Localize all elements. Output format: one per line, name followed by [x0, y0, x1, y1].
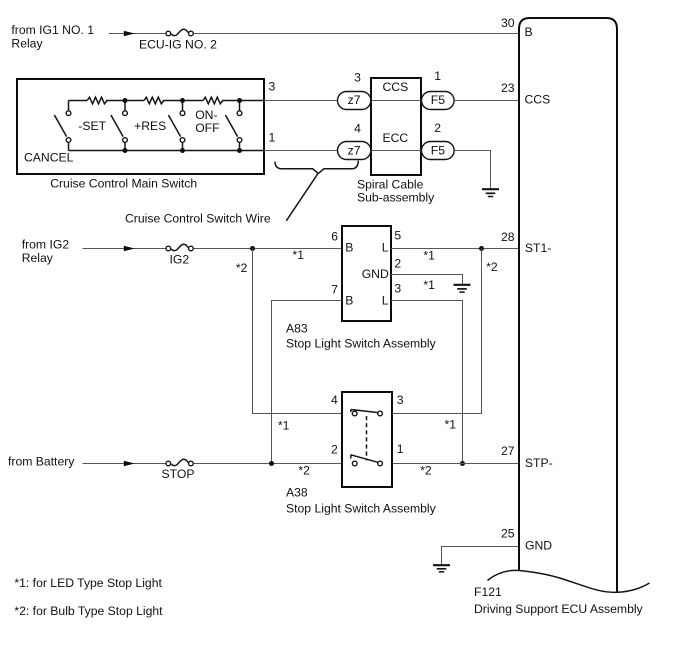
- svg-text:Driving Support ECU Assembly: Driving Support ECU Assembly: [474, 602, 644, 616]
- svg-text:Cruise Control Main Switch: Cruise Control Main Switch: [50, 177, 197, 191]
- svg-text:*2: *2: [486, 260, 498, 274]
- svg-text:F5: F5: [431, 143, 445, 157]
- wire ECU pin 25 to ground: [442, 547, 519, 565]
- wire A83 pin3 down to STP wire: [391, 301, 463, 464]
- ground (ECU GND): [433, 565, 450, 572]
- wire top rail (pin 3 rail): [69, 100, 265, 102]
- fuse ECU-IG NO. 2: [139, 29, 217, 51]
- svg-text:from Battery: from Battery: [8, 455, 75, 469]
- wire A83 pin5 to ECU pin 28: [391, 248, 518, 250]
- svg-text:OFF: OFF: [195, 121, 219, 135]
- switch -SET: [78, 102, 127, 151]
- svg-text:27: 27: [501, 444, 515, 458]
- resistor R3: [203, 97, 223, 104]
- svg-text:1: 1: [397, 442, 404, 456]
- svg-text:A83: A83: [286, 321, 308, 335]
- switch A38 lower (Bulb): [351, 455, 383, 466]
- wire A83 pin2 to ground: [391, 275, 463, 285]
- leader line to label: [286, 173, 318, 221]
- svg-text:Relay: Relay: [22, 251, 54, 265]
- svg-text:28: 28: [501, 230, 515, 244]
- svg-text:ECC: ECC: [383, 131, 409, 145]
- fuse IG2: [166, 244, 193, 266]
- svg-text:2: 2: [394, 257, 401, 271]
- connector F5 pin 1: [422, 69, 455, 110]
- switch ON-OFF: [195, 102, 242, 151]
- wire A38 pin1 to ECU pin 27: [392, 463, 518, 465]
- cruise control main switch box: [17, 79, 264, 174]
- wire A83 pin7 down to STOP wire: [272, 301, 343, 464]
- svg-text:A38: A38: [286, 486, 308, 500]
- arrow IG2 flow: [124, 246, 135, 251]
- node dots on bottom rail: [123, 148, 128, 153]
- wire vertical ST1 junction to A38 pin 3: [392, 249, 482, 414]
- brace cruise control switch wire: [275, 161, 358, 174]
- arrow IG1 flow: [124, 31, 135, 36]
- svg-text:Stop Light Switch Assembly: Stop Light Switch Assembly: [286, 502, 437, 516]
- svg-text:*1: *1: [423, 278, 435, 292]
- svg-text:B: B: [345, 240, 353, 254]
- svg-text:B: B: [345, 294, 353, 308]
- wire F5 pin2 to ground: [454, 151, 490, 189]
- switch CANCEL: [24, 101, 74, 165]
- connector F5 pin 2: [422, 121, 455, 160]
- svg-text:CCS: CCS: [383, 80, 409, 94]
- svg-text:L: L: [382, 240, 389, 254]
- wire through spiral box row ECC: [371, 150, 421, 152]
- svg-text:*1: *1: [423, 249, 435, 263]
- wire through spiral box row CCS: [371, 100, 421, 102]
- wire F5 pin1 to ECU pin 23: [454, 100, 518, 102]
- ground (A83 pin2): [454, 285, 471, 292]
- svg-text:IG2: IG2: [170, 253, 190, 267]
- A83 stop light switch box: [342, 226, 391, 321]
- svg-text:3: 3: [394, 281, 401, 295]
- A38 stop light switch box: [342, 392, 392, 487]
- svg-text:1: 1: [434, 69, 441, 83]
- svg-text:2: 2: [331, 442, 338, 456]
- node dot IG2 junction: [250, 246, 255, 251]
- wire IG2 relay to A83 pin 6: [83, 248, 343, 250]
- svg-text:2: 2: [434, 121, 441, 135]
- svg-text:z7: z7: [348, 93, 361, 107]
- fuse STOP: [162, 459, 195, 481]
- svg-text:CANCEL: CANCEL: [24, 151, 74, 165]
- svg-text:3: 3: [354, 70, 361, 84]
- node dot STOP junction: [269, 461, 274, 466]
- ECU F121 box: [519, 18, 617, 592]
- svg-text:6: 6: [331, 230, 338, 244]
- ground (spiral cable): [482, 189, 499, 196]
- svg-text:CCS: CCS: [525, 92, 551, 106]
- spiral cable sub-assembly box: [371, 78, 421, 175]
- svg-text:23: 23: [501, 81, 515, 95]
- svg-text:5: 5: [394, 229, 401, 243]
- resistor R1: [87, 97, 107, 104]
- svg-text:from IG2: from IG2: [22, 238, 70, 252]
- wire bottom rail (pin 1 rail): [69, 150, 265, 152]
- svg-text:STOP: STOP: [162, 467, 195, 481]
- svg-text:ST1-: ST1-: [525, 241, 551, 255]
- svg-text:from IG1 NO. 1: from IG1 NO. 1: [11, 23, 94, 37]
- svg-text:*1: *1: [278, 418, 290, 432]
- svg-text:*2: for Bulb Type Stop Light: *2: for Bulb Type Stop Light: [14, 604, 163, 618]
- svg-text:GND: GND: [362, 267, 389, 281]
- switch +RES: [134, 102, 185, 151]
- svg-text:STP-: STP-: [525, 456, 553, 470]
- svg-text:F5: F5: [431, 93, 445, 107]
- svg-text:GND: GND: [525, 538, 552, 552]
- wire Battery to A38 pin 2: [83, 463, 343, 465]
- svg-text:*2: *2: [236, 261, 248, 275]
- node dot STP junction: [460, 461, 465, 466]
- dashed mechanical link: [366, 416, 368, 461]
- node from IG2 label: [22, 238, 70, 266]
- svg-text:*1: for LED Type Stop Light: *1: for LED Type Stop Light: [14, 576, 162, 590]
- svg-text:Stop Light Switch Assembly: Stop Light Switch Assembly: [286, 337, 437, 351]
- connector z7 pin 4: [338, 121, 371, 159]
- svg-text:+RES: +RES: [134, 119, 166, 133]
- node dots on top rail: [123, 98, 128, 103]
- wire pin3 to spiral cable z7: [264, 100, 337, 102]
- svg-text:ON-: ON-: [195, 108, 217, 122]
- ECU torn bottom edge: [488, 570, 650, 592]
- svg-text:z7: z7: [348, 143, 361, 157]
- svg-text:Cruise Control Switch Wire: Cruise Control Switch Wire: [125, 212, 271, 226]
- svg-text:*2: *2: [420, 464, 432, 478]
- svg-text:Spiral Cable: Spiral Cable: [357, 177, 424, 191]
- svg-text:3: 3: [269, 79, 276, 93]
- wire vertical IG2 junction to A38 pin 4: [253, 249, 343, 414]
- svg-text:*1: *1: [293, 248, 305, 262]
- arrow battery flow: [124, 461, 135, 466]
- node from IG1 label: [11, 23, 94, 51]
- svg-text:Sub-assembly: Sub-assembly: [357, 191, 435, 205]
- svg-text:4: 4: [354, 121, 361, 135]
- svg-text:3: 3: [397, 393, 404, 407]
- resistor R2: [144, 97, 164, 104]
- svg-text:25: 25: [501, 527, 515, 541]
- svg-text:7: 7: [331, 282, 338, 296]
- svg-text:*2: *2: [298, 464, 310, 478]
- svg-text:1: 1: [269, 131, 276, 145]
- switch A38 upper (LED): [351, 410, 383, 416]
- svg-text:*1: *1: [445, 418, 457, 432]
- wire pin1 to spiral cable z7: [264, 150, 337, 152]
- svg-text:ECU-IG NO. 2: ECU-IG NO. 2: [139, 37, 217, 51]
- svg-text:F121: F121: [474, 585, 502, 599]
- svg-text:4: 4: [331, 393, 338, 407]
- connector z7 pin 3: [338, 70, 371, 109]
- svg-text:Relay: Relay: [11, 36, 43, 50]
- node dot ST1 junction: [479, 246, 484, 251]
- svg-text:L: L: [382, 294, 389, 308]
- svg-text:30: 30: [501, 16, 515, 30]
- svg-text:-SET: -SET: [78, 119, 106, 133]
- svg-text:B: B: [525, 25, 533, 39]
- wire IG1 to ECU pin 30: [109, 33, 518, 35]
